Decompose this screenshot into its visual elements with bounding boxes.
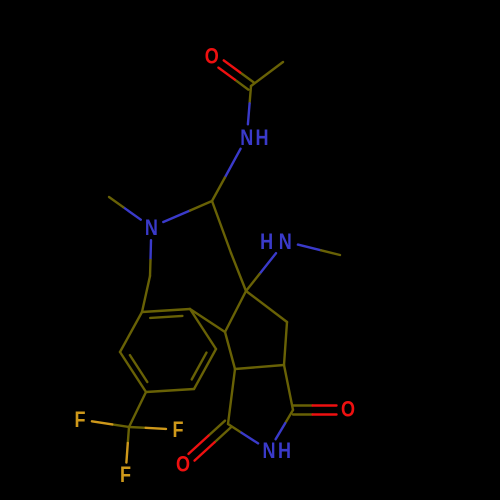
bond N-CH3 half-b xyxy=(109,197,123,207)
double bond C1=O line2 half-b xyxy=(218,68,235,80)
bond C1-N(amide) half-a xyxy=(250,86,251,103)
svg-text:O: O xyxy=(205,45,219,69)
double bond C=O left line2 half-a xyxy=(215,427,231,442)
bond C(=O)-NH half-b xyxy=(276,423,286,439)
bond NH-CH3 half-a xyxy=(298,245,321,251)
bond N-CH2 half-a xyxy=(149,240,152,260)
double bond C1=O line1 half-a xyxy=(240,73,254,83)
bond C-F1 half-a xyxy=(112,424,129,427)
double bond C=O right line2 half-a xyxy=(293,404,313,406)
bond CHb-phenyl xyxy=(190,309,225,332)
bond N(amide)-CH half-b xyxy=(212,178,225,202)
bond NH-Cq half-a xyxy=(260,253,277,274)
bond Cq-CHb xyxy=(225,291,246,332)
phenyl edge P5-P6 xyxy=(194,349,216,389)
bond C3a-C3b xyxy=(235,365,284,369)
bond N-CH3 half-a xyxy=(123,207,141,220)
bond CH2-phenyl xyxy=(142,276,150,312)
double bond C1=O line2 half-a xyxy=(235,80,248,90)
bond NH-Cq half-b xyxy=(246,274,260,291)
phenyl edge P2-P3 xyxy=(120,312,142,352)
bond N(ring)-CH half-b xyxy=(190,201,212,211)
phenyl edge P4-P5 xyxy=(190,309,216,349)
phenyl inner double P1-P2 xyxy=(130,355,147,382)
bond C1-N(amide) half-b xyxy=(248,103,250,124)
bond C(=O)-NH b half-b xyxy=(242,433,259,444)
svg-text:F: F xyxy=(74,409,85,433)
bond CHb-C3b xyxy=(225,332,235,369)
bond C(=O)-NH half-a xyxy=(285,410,293,423)
svg-text:N: N xyxy=(240,126,253,150)
phenyl edge P3-P4 xyxy=(142,309,190,312)
svg-text:F: F xyxy=(120,464,131,488)
svg-text:N: N xyxy=(279,231,292,255)
double bond C=O right line2 half-b xyxy=(313,404,337,406)
bond NH-CH3 half-b xyxy=(321,250,340,255)
phenyl edge P6-P1 xyxy=(146,389,194,392)
bond C-F3 half-b xyxy=(126,443,127,463)
phenyl edge P1-P2 xyxy=(120,352,146,392)
svg-text:N: N xyxy=(145,216,158,240)
svg-text:H: H xyxy=(255,126,268,150)
bond N(ring)-CH half-a xyxy=(163,211,190,223)
double bond C=O left line1 half-b xyxy=(189,436,209,454)
svg-text:O: O xyxy=(341,398,355,422)
phenyl inner double P5-P6 xyxy=(192,353,207,380)
svg-text:H: H xyxy=(260,231,273,255)
bond C3a-C(=O) xyxy=(284,365,293,410)
bond C-F2 half-a xyxy=(129,426,146,429)
svg-text:O: O xyxy=(176,453,190,477)
bond C-F3 half-a xyxy=(128,427,129,443)
bond C3b-C(=O) xyxy=(228,369,235,424)
bond C-F1 half-b xyxy=(92,421,112,424)
double bond C=O right line1 half-b xyxy=(313,413,337,415)
bond C(=O)-NH b half-a xyxy=(228,424,242,433)
bond CH2a-C3a xyxy=(284,322,287,365)
double bond C=O left line1 half-a xyxy=(209,421,226,436)
phenyl inner double P3-P4 xyxy=(150,316,182,318)
svg-text:N: N xyxy=(262,440,275,464)
bond N(amide)-CH half-a xyxy=(225,149,241,178)
double bond C=O left line2 half-b xyxy=(195,442,215,460)
bond phenyl-CF3 xyxy=(129,392,146,427)
bond N-CH2 half-b xyxy=(149,260,152,276)
bond CH2-Cq xyxy=(231,253,246,291)
bond C-F2 half-b xyxy=(146,428,166,429)
double bond C=O right line1 half-a xyxy=(293,413,313,415)
double bond C1=O line1 half-b xyxy=(224,60,241,72)
bond CH-CH2 xyxy=(212,201,231,253)
bond Cq-CH2a xyxy=(246,291,287,322)
svg-text:F: F xyxy=(172,419,183,443)
bond CH3-C1 xyxy=(251,62,283,86)
svg-text:H: H xyxy=(278,440,291,464)
